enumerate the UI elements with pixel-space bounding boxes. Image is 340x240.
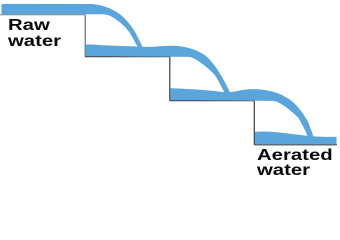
water level 2: bar + waterfall 2 [86,44,233,95]
water level 1: top bar + waterfall 1 [2,4,147,52]
step outline: tread 2 [85,56,170,58]
step outline: tread 1 [0,14,85,16]
water level 3: bar + waterfall 3 [170,88,315,139]
step outline: tread 3 [170,100,255,102]
label: Aerated water [257,148,333,178]
water level 4: bottom bar [255,132,337,145]
step outline: tread 4 (bottom) [254,144,337,146]
label: Raw water [8,18,61,50]
step outline: riser 3 [253,101,255,145]
step outline: riser 2 [169,57,171,101]
step outline: riser 1 [84,15,86,57]
